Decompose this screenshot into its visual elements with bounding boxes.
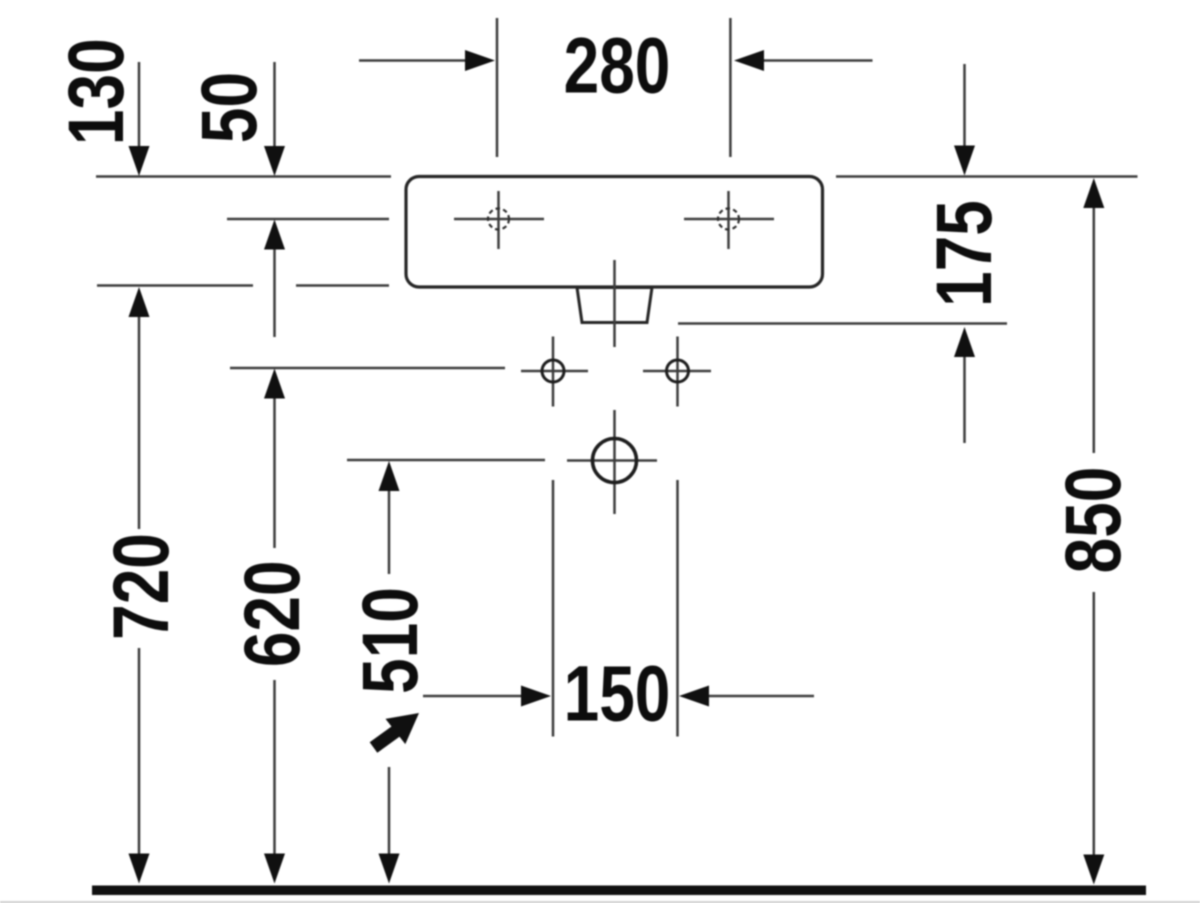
arrowhead dim130/720 up at basin bottom line	[129, 287, 150, 317]
mounting hole right circle	[667, 360, 689, 382]
arrowhead dim850 down at floor	[1083, 855, 1104, 885]
drain spigot trapezoid	[577, 288, 652, 323]
wire faucet hole right vertical arm	[727, 191, 730, 249]
wire drain circle vertical arm	[613, 410, 616, 514]
svg-text:620: 620	[229, 560, 317, 667]
svg-text:130: 130	[53, 38, 141, 145]
svg-text:720: 720	[98, 533, 186, 640]
wire mounting hole centerline	[230, 367, 505, 370]
wire dim 150 left arrow shaft	[423, 695, 522, 698]
wire basin bottom reference left a	[97, 284, 253, 287]
faucet hole left dashed circle	[488, 209, 509, 230]
arrowhead dim510 up at drain centerline	[379, 461, 400, 491]
wire mounting hole right horizontal arm	[643, 370, 711, 373]
wire top reference line right segment	[836, 175, 1138, 178]
faucet hole right dashed circle	[718, 209, 739, 230]
wire mounting hole left vertical arm	[552, 337, 555, 407]
wire top reference line left segment	[96, 175, 391, 178]
svg-text:50: 50	[186, 72, 274, 143]
arrowhead dim280 right pointing left	[734, 50, 764, 71]
wire dim 280 right arrow shaft	[764, 59, 873, 62]
arrowhead dim510 down at floor	[379, 854, 400, 884]
floor line	[92, 886, 1146, 896]
wire dim 280 right extension	[729, 18, 732, 157]
arrowhead dim280 left pointing right	[465, 50, 495, 71]
wire dim 850 shaft lower	[1093, 592, 1096, 855]
arrowhead dim175 down at top line	[954, 146, 975, 176]
svg-text:175: 175	[921, 200, 1009, 307]
wire dim 620 shaft upper	[273, 398, 276, 549]
svg-text:510: 510	[347, 587, 435, 694]
wire dim 280 left extension	[496, 18, 499, 157]
mounting hole left circle	[542, 360, 564, 382]
arrowhead dim150 right pointing left	[679, 686, 709, 707]
wire dim 150 left extension	[552, 480, 555, 737]
wire faucet hole left horizontal arm	[454, 218, 544, 221]
wire dim 175 bottom shaft	[963, 356, 966, 443]
wire drain centerline reference	[347, 459, 545, 462]
wire dim 850 shaft upper	[1093, 207, 1096, 453]
wire mounting hole left horizontal arm	[521, 370, 588, 373]
arrowhead dim150 left pointing right	[521, 686, 551, 707]
arrowhead dim620 up at hole centerline	[264, 369, 285, 399]
wire faucet hole left vertical arm	[497, 191, 500, 249]
wire faucet hole right horizontal arm	[684, 218, 774, 221]
supply direction arrow diagonal	[374, 713, 420, 748]
arrowhead dim620 down at floor	[264, 854, 285, 884]
svg-text:850: 850	[1050, 467, 1138, 574]
wire mounting hole right vertical arm	[676, 337, 679, 407]
image bottom edge faint line	[0, 901, 1200, 903]
wire dim 620 shaft lower	[273, 680, 276, 854]
svg-text:150: 150	[564, 650, 671, 738]
svg-text:280: 280	[564, 22, 671, 110]
wire dim 50 bottom shaft	[273, 248, 276, 337]
drain hole circle	[593, 439, 637, 483]
wire dim 50 top shaft	[273, 62, 276, 147]
wire dim 510 shaft lower	[388, 767, 391, 854]
wire drain circle horizontal arm	[567, 459, 657, 462]
wire dim 720 shaft lower	[138, 648, 141, 854]
wire drain vertical centerline	[613, 260, 616, 347]
arrowhead dim50 up at faucet centerline	[264, 220, 285, 250]
arrowhead dim850 up at top line	[1083, 178, 1104, 208]
wire dim 175 top shaft	[963, 64, 966, 146]
wire dim 280 left arrow shaft	[359, 59, 466, 62]
arrowhead dim50 down at top line	[264, 146, 285, 176]
washbasin outline rounded rectangle	[406, 177, 823, 288]
arrowhead dim175 up at overflow line	[954, 327, 975, 357]
arrowhead dim130 down at top line	[129, 146, 150, 176]
wire dim 130 top shaft	[138, 62, 141, 147]
wire dim 510 shaft upper	[388, 490, 391, 574]
wire overflow reference line right	[678, 322, 1007, 325]
wire basin bottom reference left b	[296, 284, 389, 287]
wire dim 150 right arrow shaft	[709, 695, 814, 698]
wire faucet centerline left	[227, 218, 389, 221]
wire dim 150 right extension	[676, 480, 679, 737]
arrowhead dim720 down at floor	[129, 854, 150, 884]
wire dim 720 shaft upper	[138, 316, 141, 529]
